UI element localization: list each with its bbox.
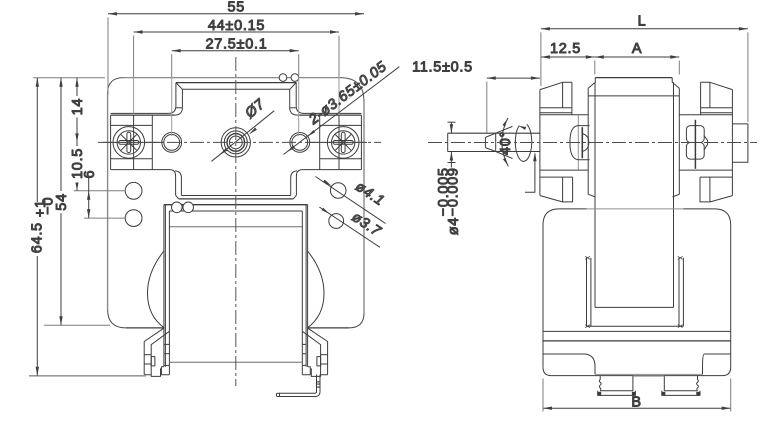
- svg-text:40°: 40°: [498, 131, 514, 155]
- svg-text:54: 54: [54, 193, 70, 211]
- svg-text:ø4: ø4: [446, 217, 462, 235]
- bearing rear (left, D-shape): [570, 116, 590, 170]
- leader Ø7 shaft hole: [212, 111, 275, 162]
- extension lines left side: [33, 77, 105, 79]
- bobbin front face: [164, 205, 308, 375]
- terminal wire: [276, 375, 320, 397]
- centerline right view: [428, 142, 757, 144]
- coil body side view: [543, 209, 731, 376]
- svg-text:2-ø3.65±0.05: 2-ø3.65±0.05: [305, 59, 390, 129]
- centerline vertical: [235, 57, 237, 386]
- shaft: [448, 126, 540, 158]
- left 3.65 hole: [162, 133, 182, 153]
- svg-text:B: B: [631, 395, 641, 411]
- dim B base width: [543, 407, 731, 409]
- dim 12.5 bearing boss: [541, 56, 595, 58]
- terminal bosses bottom: [597, 376, 700, 396]
- svg-text:12.5: 12.5: [550, 41, 581, 57]
- housing left face: [540, 82, 588, 202]
- top-left flange tab: [540, 82, 572, 89]
- svg-text:64.5: 64.5: [30, 222, 46, 253]
- dim ø4 shaft diameter with tolerances: [448, 121, 456, 123]
- right foot: [302, 328, 327, 377]
- dim 40° oscillation angle: [498, 131, 514, 155]
- lower mounting holes right pair (4.1 / 3.7): [329, 183, 346, 229]
- leader 2-ø3.65±0.05 mounting holes: [284, 67, 400, 155]
- bottom-left flange tab: [540, 177, 573, 202]
- lower mounting holes left pair: [125, 182, 142, 226]
- dim 55 overall width: [108, 13, 364, 15]
- svg-text:44±0.15: 44±0.15: [208, 18, 265, 34]
- svg-text:−0.009: −0.009: [446, 167, 462, 216]
- svg-text:6: 6: [82, 170, 98, 179]
- dim 11.5±0.5 shaft extension: [487, 77, 540, 79]
- left screw M4 with cross recess: [113, 127, 145, 159]
- centerline horizontal: [98, 141, 381, 143]
- coil outline arcs: [147, 251, 324, 328]
- svg-text:55: 55: [228, 0, 246, 15]
- coil lead wires (two circles): [172, 202, 194, 213]
- shaft cone: [484, 137, 486, 147]
- 40 deg arc: [502, 118, 509, 166]
- rotation ellipse arrow: [515, 124, 531, 161]
- lamination stack: [588, 78, 679, 308]
- dim 14: [76, 78, 78, 143]
- two rivet circles on top edge: [279, 74, 299, 82]
- dim 64.5 +1/0 overall height: [36, 78, 38, 376]
- dim 27.5±0.1 hole spacing: [172, 50, 299, 52]
- bearing front (right, two-lobe): [686, 120, 707, 169]
- center hub circles: [221, 128, 250, 157]
- top-right flange tab: [679, 82, 732, 202]
- leader ø3.7 hole: [319, 207, 380, 247]
- right end boss: [732, 124, 748, 162]
- bracket lower skirt: [170, 170, 301, 199]
- bottom-right flange tab: [700, 177, 732, 202]
- right 3.65 hole: [290, 133, 310, 153]
- leader ø4.1 hole: [315, 177, 385, 224]
- dim L overall length: [541, 28, 748, 30]
- svg-text:27.5±0.1: 27.5±0.1: [206, 36, 268, 52]
- dim 10.5: [76, 142, 78, 190]
- right screw block: [302, 115, 362, 169]
- svg-text:11.5±0.5: 11.5±0.5: [412, 60, 473, 76]
- 40 deg legs: [496, 126, 513, 133]
- svg-text:L: L: [638, 13, 647, 29]
- right screw with cross recess: [327, 127, 359, 159]
- front bracket plate (top hat): [111, 83, 362, 116]
- bobbin side walls: [585, 256, 683, 327]
- screw crosshair lines: [103, 115, 367, 169]
- left screw block: [111, 115, 171, 169]
- svg-text:ø3.7: ø3.7: [349, 209, 384, 240]
- housing top/bottom: [540, 114, 588, 116]
- dim 44±0.15 screw spacing: [134, 31, 339, 33]
- dim A stack length: [595, 56, 680, 58]
- bracket flange lines: [111, 112, 169, 114]
- dim 54: [60, 78, 62, 326]
- svg-text:A: A: [632, 41, 642, 57]
- dim 6: [88, 177, 90, 219]
- svg-text:14: 14: [70, 98, 86, 116]
- stator body outline: [108, 78, 364, 328]
- left foot: [144, 328, 169, 377]
- bearing leader: [525, 152, 537, 192]
